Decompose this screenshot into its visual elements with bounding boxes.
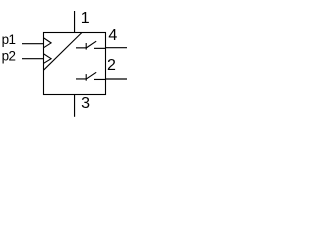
wire p2 bbox=[22, 58, 44, 60]
isolation diagonal bbox=[44, 33, 82, 71]
switch S2 left lead bbox=[76, 78, 86, 80]
pin 1 wire bbox=[74, 11, 76, 33]
svg-text:p2: p2 bbox=[2, 48, 16, 63]
svg-text:2: 2 bbox=[107, 57, 116, 74]
switch S2 right lead bbox=[94, 78, 106, 80]
svg-text:3: 3 bbox=[81, 95, 90, 112]
switch S1 lever bbox=[86, 41, 96, 48]
input buffer triangle A2 bbox=[44, 54, 51, 63]
wire p1 bbox=[22, 43, 44, 45]
input buffer triangle A1 bbox=[44, 38, 51, 48]
switch S2 lever bbox=[86, 72, 96, 79]
switch S1 left lead bbox=[76, 47, 86, 49]
pin 3 wire bbox=[74, 95, 76, 117]
pin 2 wire bbox=[106, 78, 128, 80]
switch S1 right lead bbox=[94, 47, 106, 49]
switch S2 contact bar bbox=[85, 74, 87, 81]
pin 4 wire bbox=[106, 47, 128, 49]
svg-text:4: 4 bbox=[108, 27, 117, 44]
switch S1 contact bar bbox=[85, 43, 87, 50]
svg-text:1: 1 bbox=[81, 10, 90, 27]
svg-text:p1: p1 bbox=[2, 32, 16, 47]
component box U1 bbox=[44, 33, 106, 95]
